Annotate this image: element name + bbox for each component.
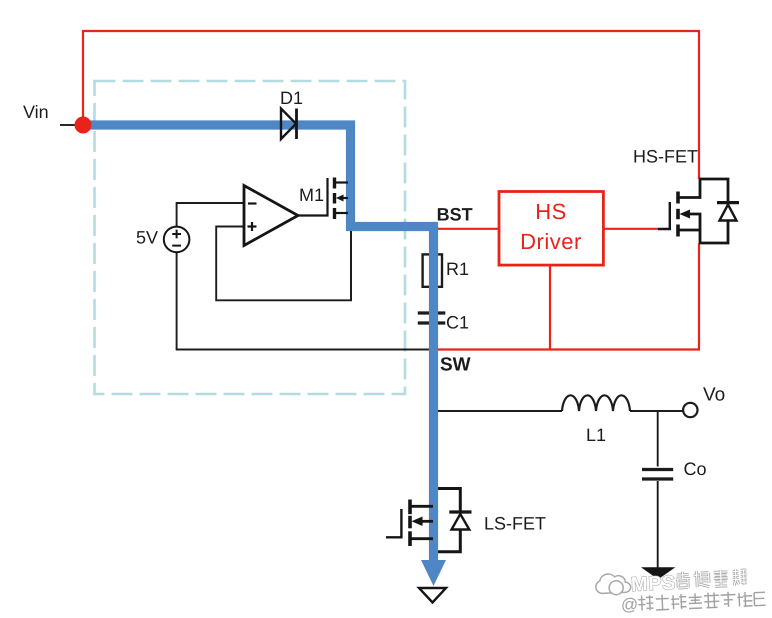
svg-text:MPS: MPS (631, 572, 677, 596)
svg-text:5V: 5V (136, 228, 158, 248)
svg-text:SW: SW (440, 355, 471, 376)
svg-text:@: @ (620, 595, 638, 615)
svg-text:D1: D1 (280, 88, 303, 108)
svg-text:M1: M1 (299, 185, 324, 205)
svg-text:BST: BST (437, 205, 473, 225)
svg-text:L1: L1 (586, 425, 606, 445)
svg-text:Co: Co (684, 459, 707, 479)
svg-text:HS: HS (535, 199, 567, 224)
svg-text:Vo: Vo (703, 385, 725, 406)
svg-text:Driver: Driver (520, 229, 582, 254)
svg-text:R1: R1 (446, 259, 469, 279)
svg-text:HS-FET: HS-FET (633, 147, 698, 167)
svg-text:LS-FET: LS-FET (484, 514, 546, 534)
svg-text:C1: C1 (446, 313, 469, 333)
svg-text:Vin: Vin (23, 102, 49, 122)
